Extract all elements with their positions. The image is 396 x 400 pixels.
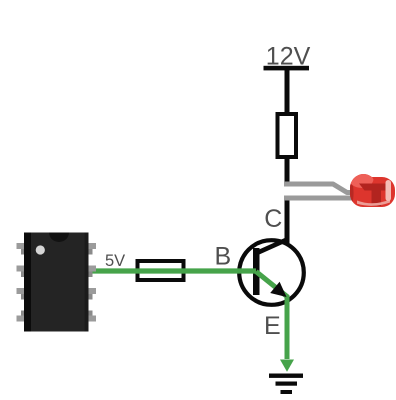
svg-text:E: E — [264, 312, 281, 340]
IC U1 pin 7 (left row 2) — [17, 266, 27, 278]
node label B — [215, 242, 232, 270]
transistor Q1 body circle — [239, 240, 304, 305]
wire LED cathode lead to collector — [285, 197, 290, 243]
node label E — [264, 312, 281, 340]
wire IC pin to base B (green, 5V net) — [92, 268, 256, 273]
IC U1 pin 8 (left row 1) — [17, 243, 27, 255]
svg-text:5V: 5V — [105, 252, 125, 270]
LED D1 body — [350, 173, 395, 207]
wire R1 to LED anode lead — [285, 159, 290, 185]
ground symbol — [269, 374, 303, 395]
wire 12V rail to R1 — [285, 70, 290, 113]
IC U1 body — [24, 233, 89, 332]
IC U1 pin 2 (right row 2) — [87, 266, 96, 278]
IC U1 pin-1 marker dot — [36, 245, 45, 254]
transistor Q1 collector line — [258, 240, 287, 253]
IC U1 pin 1 (right row 1) — [87, 243, 96, 255]
IC U1 pin 6 (left row 3) — [17, 288, 27, 300]
IC U1 pin 5 (left row 4) — [17, 311, 27, 322]
resistor R1 — [278, 114, 297, 157]
green wire arrowhead at ground — [280, 360, 294, 372]
svg-text:B: B — [215, 242, 232, 270]
svg-text:C: C — [264, 205, 282, 233]
LED D1 cathode lead — [284, 196, 356, 201]
power rail 12V bar — [264, 66, 310, 71]
transistor Q1 emitter wire to ground (green) — [256, 272, 287, 360]
IC U1 pin 3 (right row 3) — [87, 288, 96, 300]
node label C — [264, 205, 282, 233]
LED D1 anode lead — [284, 184, 356, 193]
net label 12V — [266, 43, 311, 71]
IC U1 pin 4 (right row 4) — [87, 311, 96, 322]
transistor Q1 base bar — [253, 248, 260, 295]
transistor Q1 emitter arrow — [270, 282, 286, 297]
resistor R2 — [138, 261, 184, 280]
net label 5V — [105, 252, 125, 270]
